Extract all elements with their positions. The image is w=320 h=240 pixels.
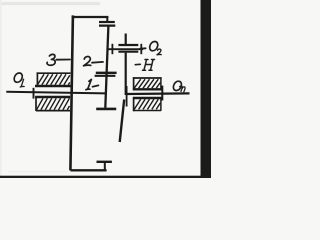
label On (output axis) xyxy=(173,81,181,90)
carrier H: lower arm xyxy=(120,100,125,143)
paper background xyxy=(0,0,211,178)
axle left cap tick xyxy=(111,44,113,54)
planet hub upper bar xyxy=(118,44,138,46)
right bearing lower block xyxy=(133,97,162,111)
label 2 xyxy=(84,57,91,66)
gear 3: bottom tooth stub xyxy=(104,163,106,171)
leader dash of O2 xyxy=(140,47,146,49)
label O2 xyxy=(150,42,158,51)
gear 3: top tooth stub xyxy=(106,17,108,22)
left bearing lower block xyxy=(35,96,70,111)
gear 3 internal ring: rim wall xyxy=(70,15,73,170)
input shaft O1 xyxy=(6,92,106,94)
mesh 1-2: upper bar xyxy=(96,72,117,74)
gear 1: foot bar xyxy=(96,108,116,111)
right bearing cap tick xyxy=(161,86,163,101)
axle right cap tick xyxy=(140,44,142,54)
gear 3: bottom tooth bar xyxy=(97,161,112,163)
gear 3: top rim line xyxy=(72,16,109,18)
gear 3: top tooth bar xyxy=(99,21,115,23)
carrier H: shaft end cap xyxy=(126,86,128,107)
gear 2: top tooth bar (mesh 2-3) xyxy=(99,25,115,27)
mesh 1-2: lower bar xyxy=(95,75,116,77)
gear 3: bottom rim line xyxy=(70,162,112,171)
leader dash of 1 xyxy=(93,85,99,86)
label O1 xyxy=(14,73,22,82)
gear 2 / gear 1 body line xyxy=(105,26,108,108)
photo edge: bottom dark line xyxy=(0,176,211,178)
left bearing upper block xyxy=(35,72,71,86)
photo edge: right dark band xyxy=(201,0,212,178)
label H xyxy=(143,60,155,71)
label 3 xyxy=(47,54,55,65)
carrier H: upper arm (above hub) xyxy=(125,34,127,47)
label 1 xyxy=(86,79,92,89)
leader dash of 2 xyxy=(92,61,103,64)
planet hub lower bar xyxy=(118,51,138,53)
right bearing upper block xyxy=(133,77,162,90)
output shaft On xyxy=(127,92,190,95)
carrier H: upper arm (below hub) xyxy=(125,53,127,95)
wire: gear-3 rim wall (left vertical of bracket) xyxy=(6,15,189,170)
planet axle O2 xyxy=(107,48,144,50)
left bearing cap tick xyxy=(33,88,35,99)
leader dash of 3 xyxy=(56,59,70,61)
leader dash of H xyxy=(135,63,140,65)
